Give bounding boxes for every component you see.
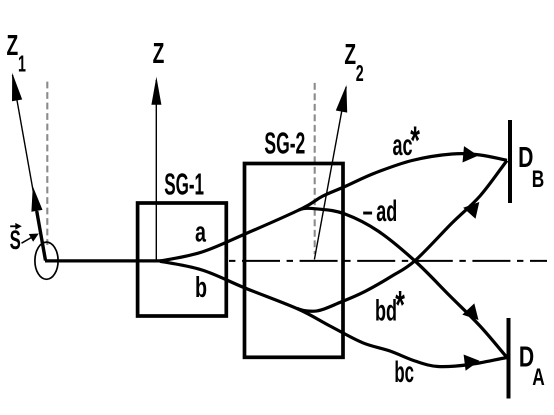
arrowhead on bd* beam	[463, 202, 479, 219]
Z2 axis arrowhead	[336, 85, 347, 113]
dashed vertical reference line (right, through SG-2)	[314, 83, 316, 254]
beam path -ad branch (crosses axis, to DA)	[299, 208, 507, 357]
Z axis arrowhead	[151, 77, 161, 105]
spin vector arrow S (thick) from source	[37, 211, 46, 261]
vector hat arrow over S label	[10, 225, 18, 227]
horizontal dash-dot optical axis centerline	[229, 260, 547, 262]
Z1 axis line (tilted, from source)	[13, 75, 46, 261]
arrowhead on ac* beam	[463, 146, 479, 162]
svg-text:SG-1: SG-1	[164, 168, 204, 201]
svg-text:S: S	[10, 225, 21, 255]
svg-text:Z: Z	[7, 30, 19, 62]
svg-text:bc: bc	[394, 356, 414, 389]
svg-text:1: 1	[18, 52, 26, 77]
svg-text:B: B	[532, 166, 544, 192]
beam path bd* branch (crosses axis, to DB)	[297, 161, 507, 312]
arrowhead on bc beam	[464, 355, 480, 371]
svg-text:b: b	[195, 273, 207, 305]
svg-text:*: *	[395, 284, 405, 328]
annotation arrow from S label to spin arrow	[22, 236, 35, 243]
beam path a -> ac* (upper, to detector DB)	[160, 154, 507, 261]
arrowhead on -ad beam	[462, 303, 478, 320]
svg-text:bd: bd	[375, 295, 397, 328]
source ellipse (oven S)	[35, 242, 58, 279]
Z axis line (vertical, through SG-1)	[155, 80, 157, 261]
svg-text:D: D	[518, 142, 533, 174]
dashed vertical reference line (left, through source)	[46, 82, 48, 245]
svg-text:*: *	[410, 119, 420, 163]
Z1 axis arrowhead	[12, 73, 22, 102]
svg-text:2: 2	[356, 62, 364, 87]
svg-text:SG-2: SG-2	[264, 127, 305, 161]
svg-text:A: A	[532, 364, 544, 390]
svg-text:Z: Z	[153, 38, 165, 70]
main beam line from source to SG-1 split	[45, 259, 163, 262]
detector DA bar	[507, 318, 511, 399]
SG-2 apparatus box	[245, 164, 344, 358]
beam path b -> bc (lower, to detector DA)	[160, 261, 507, 366]
spin vector arrowhead	[31, 186, 42, 212]
detector DB bar	[508, 120, 512, 203]
Z2 axis line (tilted, through SG-2)	[314, 87, 346, 260]
svg-text:– ad: – ad	[363, 195, 398, 228]
svg-text:a: a	[195, 217, 206, 249]
SG-1 apparatus box	[138, 203, 227, 316]
svg-text:Z: Z	[344, 39, 356, 71]
